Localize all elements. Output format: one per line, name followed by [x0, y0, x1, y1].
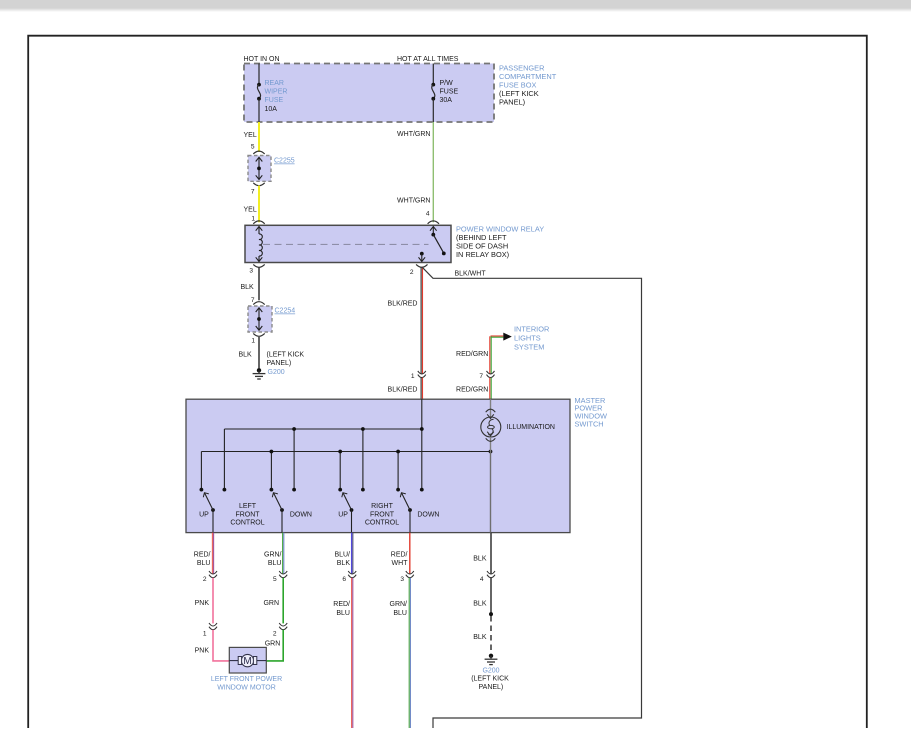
relay coil: [256, 227, 263, 262]
wire RED/GRN to interior lights: [456, 336, 503, 374]
svg-text:G200: G200: [268, 369, 285, 376]
svg-text:1: 1: [251, 216, 255, 223]
svg-text:(LEFT KICK: (LEFT KICK: [267, 352, 305, 359]
svg-text:G200: G200: [482, 667, 499, 674]
svg-text:1: 1: [411, 373, 415, 380]
svg-text:7: 7: [251, 189, 255, 196]
svg-text:BLK: BLK: [239, 352, 253, 359]
svg-text:GRN: GRN: [265, 640, 281, 647]
svg-text:7: 7: [479, 373, 483, 380]
svg-text:BLK: BLK: [337, 560, 351, 567]
svg-text:1: 1: [203, 631, 207, 638]
wire RED/BLU switch to break: [194, 533, 214, 574]
svg-text:2: 2: [273, 631, 277, 638]
connector arc relay pin 1: [253, 221, 264, 224]
wire BLK/RED relay to break: [388, 267, 423, 374]
master switch label: [575, 396, 607, 429]
svg-text:(LEFT KICK: (LEFT KICK: [471, 676, 509, 683]
switch internal bus B: [200, 450, 493, 492]
wire YEL C2255 to relay: [244, 186, 260, 223]
inline connector pin 5: [273, 571, 287, 583]
svg-text:CONTROL: CONTROL: [230, 520, 264, 527]
svg-text:LEFT: LEFT: [239, 503, 257, 510]
svg-text:GRN/: GRN/: [264, 552, 282, 559]
inline connector pin 6: [342, 571, 356, 583]
left front power window motor: [229, 647, 266, 673]
node HOT IN ON: [244, 56, 280, 63]
wire RED/WHT switch to break: [391, 533, 410, 574]
svg-text:PANEL): PANEL): [499, 98, 525, 107]
ground G200 right: [471, 654, 509, 691]
switch RIGHT FRONT DOWN: [400, 493, 439, 533]
wire YEL fuse to C2255: [244, 122, 260, 152]
svg-text:ILLUMINATION: ILLUMINATION: [507, 424, 556, 431]
interior lights system label: [514, 324, 549, 351]
svg-text:BLK/WHT: BLK/WHT: [455, 271, 487, 278]
inline connector pin 2: [203, 571, 217, 583]
wire WHT/GRN fuse to relay: [397, 122, 433, 222]
wire RED/GRN break to switch: [456, 378, 491, 400]
svg-text:SWITCH: SWITCH: [575, 420, 604, 429]
svg-text:P/W: P/W: [440, 80, 454, 87]
svg-text:REAR: REAR: [265, 80, 284, 87]
svg-text:4: 4: [480, 576, 484, 583]
connector arc relay pin 2: [410, 264, 428, 276]
wire RED/BLU break to bottom: [333, 578, 353, 728]
svg-text:PNK: PNK: [195, 600, 210, 607]
relay label: [456, 224, 544, 259]
inline connector pin 4: [480, 571, 495, 583]
svg-text:INTERIOR: INTERIOR: [514, 324, 549, 333]
junction dot: [489, 612, 493, 616]
svg-text:C2255: C2255: [274, 158, 295, 165]
wire PNK break to motor: [195, 630, 230, 661]
svg-text:M: M: [243, 656, 251, 667]
connector C2255: [248, 156, 295, 182]
svg-text:DOWN: DOWN: [290, 511, 312, 518]
svg-text:YEL: YEL: [244, 207, 257, 214]
fuse P/W FUSE 30A: [431, 64, 458, 123]
switch LEFT FRONT UP: [199, 493, 215, 533]
motor label: [211, 676, 282, 691]
svg-text:RED/: RED/: [194, 552, 211, 559]
connector arc relay pin 4: [428, 221, 439, 224]
connector arc pin 7: [251, 183, 265, 196]
svg-text:LEFT FRONT POWER: LEFT FRONT POWER: [211, 676, 282, 683]
svg-text:BLK/RED: BLK/RED: [388, 301, 418, 308]
svg-text:SYSTEM: SYSTEM: [514, 343, 544, 352]
svg-text:WHT/GRN: WHT/GRN: [397, 131, 430, 138]
svg-text:1: 1: [251, 338, 255, 345]
svg-text:2: 2: [410, 269, 414, 276]
wire BLU/BLK switch to break: [334, 533, 352, 574]
svg-text:FUSE: FUSE: [440, 89, 459, 96]
master power window switch: [186, 399, 570, 532]
svg-text:LIGHTS: LIGHTS: [514, 334, 541, 343]
svg-text:UP: UP: [338, 511, 348, 518]
node HOT AT ALL TIMES: [397, 56, 459, 63]
svg-text:RED/: RED/: [391, 552, 408, 559]
fuse REAR WIPER FUSE 10A: [257, 64, 287, 123]
svg-text:2: 2: [203, 576, 207, 583]
wire BLK C2254 to G200: [239, 337, 305, 368]
connector C2254: [248, 306, 295, 332]
arrow to interior lights system: [503, 333, 512, 341]
connector arc pin 5: [253, 151, 264, 154]
svg-text:FRONT: FRONT: [235, 511, 260, 518]
wire BLK break to junction: [473, 578, 491, 614]
svg-text:RIGHT: RIGHT: [371, 503, 394, 510]
svg-text:BLU: BLU: [393, 610, 407, 617]
svg-text:HOT AT ALL TIMES: HOT AT ALL TIMES: [397, 56, 459, 63]
wire BLK dashed to G200: [473, 616, 491, 653]
svg-text:DOWN: DOWN: [417, 511, 439, 518]
svg-text:PANEL): PANEL): [479, 684, 504, 691]
wire BLK/WHT relay to bottom: [422, 267, 642, 728]
svg-text:PANEL): PANEL): [267, 360, 292, 367]
svg-text:BLU: BLU: [197, 560, 211, 567]
svg-text:WIPER: WIPER: [265, 89, 288, 96]
switch RIGHT FRONT UP: [338, 493, 353, 533]
relay switch: [419, 227, 446, 262]
inline connector pin 7: [479, 371, 494, 380]
illumination lamp: [481, 399, 555, 532]
svg-text:C2254: C2254: [275, 308, 296, 315]
wire PNK break to break: [195, 578, 213, 624]
svg-text:3: 3: [400, 576, 404, 583]
inline connector pin 2 motor: [273, 623, 287, 638]
svg-text:IN RELAY BOX): IN RELAY BOX): [456, 250, 509, 259]
svg-text:5: 5: [251, 144, 255, 151]
svg-text:30A: 30A: [440, 97, 453, 104]
svg-text:BLK: BLK: [473, 556, 487, 563]
svg-text:3: 3: [249, 268, 253, 275]
svg-text:BLK: BLK: [241, 284, 255, 291]
passenger compartment fuse box: [244, 64, 494, 123]
svg-text:5: 5: [273, 576, 277, 583]
svg-text:BLU/: BLU/: [334, 552, 350, 559]
svg-text:RED/GRN: RED/GRN: [456, 351, 488, 358]
wire GRN break to motor: [265, 630, 283, 661]
svg-text:GRN: GRN: [263, 600, 279, 607]
svg-text:10A: 10A: [265, 106, 278, 113]
svg-text:BLU: BLU: [268, 560, 282, 567]
svg-text:UP: UP: [199, 511, 209, 518]
connector arc pin 1 C2254: [251, 333, 264, 344]
switch internal bus A: [223, 399, 424, 491]
svg-text:BLK: BLK: [473, 634, 487, 641]
svg-text:FUSE: FUSE: [265, 97, 284, 104]
wire BLK/RED break to switch: [388, 378, 423, 400]
svg-text:RED/GRN: RED/GRN: [456, 387, 488, 394]
wire GRN break to break: [263, 578, 283, 624]
svg-text:WINDOW MOTOR: WINDOW MOTOR: [217, 685, 276, 692]
fuse box label: [499, 63, 557, 106]
svg-text:WHT/GRN: WHT/GRN: [397, 198, 430, 205]
connector arc pin 7 C2254: [253, 302, 264, 305]
svg-text:RED/: RED/: [333, 601, 350, 608]
svg-text:HOT IN ON: HOT IN ON: [244, 56, 280, 63]
svg-text:YEL: YEL: [244, 132, 257, 139]
connector arc relay pin 3: [249, 264, 264, 274]
label RIGHT FRONT CONTROL: [365, 503, 399, 527]
svg-text:BLK/RED: BLK/RED: [388, 387, 418, 394]
inline connector pin 1 motor: [203, 623, 217, 638]
wire GRN/BLU break to bottom: [390, 578, 411, 728]
svg-text:BLU: BLU: [336, 610, 350, 617]
svg-text:GRN/: GRN/: [390, 601, 408, 608]
ground G200 left: [253, 368, 285, 379]
svg-text:4: 4: [426, 211, 430, 218]
label LEFT FRONT CONTROL: [230, 503, 264, 527]
svg-text:CONTROL: CONTROL: [365, 520, 399, 527]
svg-text:BLK: BLK: [473, 601, 487, 608]
svg-text:WHT: WHT: [392, 560, 409, 567]
power window relay: [245, 225, 451, 262]
wire BLK relay to C2254: [241, 267, 260, 304]
wire GRN/BLU switch to break: [264, 533, 284, 574]
svg-text:6: 6: [342, 576, 346, 583]
wire BLK switch to break: [473, 533, 491, 574]
inline connector pin 3: [400, 571, 413, 583]
svg-text:FRONT: FRONT: [370, 511, 395, 518]
svg-text:PNK: PNK: [195, 648, 210, 655]
switch LEFT FRONT DOWN: [272, 493, 312, 533]
inline connector pin 1: [411, 371, 426, 380]
relay internal dashed line: [263, 243, 429, 245]
svg-text:7: 7: [251, 297, 255, 304]
